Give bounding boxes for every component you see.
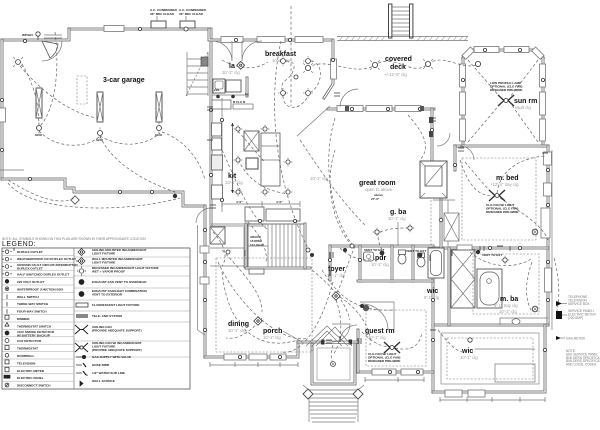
door garage entry leaf [42, 41, 58, 58]
svg-text:+/-12'-0" clg: +/-12'-0" clg [384, 72, 407, 77]
svg-text:wic: wic [461, 348, 473, 355]
svg-text:4'-0": 4'-0" [236, 200, 243, 204]
wire foyer arc [322, 270, 395, 310]
door arc garage-kitchen [196, 208, 211, 223]
porch light [331, 362, 336, 367]
mud room closet [210, 227, 244, 268]
m.ba vanity [500, 318, 548, 325]
wall dining west [204, 206, 207, 357]
mbed ceiling fan [489, 190, 505, 201]
wall deck west [324, 40, 333, 98]
wire ac feed vertical [290, 6, 292, 106]
wire mba arc 2 [527, 262, 532, 312]
wire mbed arc 2 [500, 198, 548, 240]
window wic south 2 [468, 390, 485, 397]
legend box [2, 248, 190, 389]
interior partitions and fixtures [42, 35, 548, 384]
svg-text:S: S [13, 248, 15, 252]
breakfast recessed 2 [303, 56, 313, 66]
wire mbed fan arc [460, 160, 492, 196]
window sunroom east 1 [540, 64, 546, 87]
wall kitchen south [211, 224, 266, 226]
kitchen south counter [245, 207, 264, 221]
door arc m.bed [460, 146, 474, 160]
hall smoke at stairs [310, 253, 314, 257]
svg-text:THREE-WAY SWITCH: THREE-WAY SWITCH [17, 302, 49, 306]
svg-text:W/ BATTERY BACKUP: W/ BATTERY BACKUP [17, 333, 50, 337]
legend right symbols [75, 248, 88, 386]
guest closet [360, 302, 394, 330]
door arc deck [340, 89, 358, 107]
svg-text:5g: 5g [245, 92, 249, 96]
window m.bed east 1 [544, 152, 552, 165]
porch steps [303, 385, 364, 422]
wall m.ba south / wic north [433, 324, 548, 327]
wire garage door arc [8, 180, 75, 201]
svg-text:TELEVISION: TELEVISION [17, 361, 36, 365]
kitchen island with cooktop [244, 131, 280, 186]
svg-text:10'-1" clg: 10'-1" clg [310, 176, 328, 181]
pdr partition west [359, 246, 362, 281]
wall sunroom south / m.bed north [455, 145, 548, 148]
wire foyer arc 2 [282, 282, 333, 352]
wall m.bed south [433, 247, 548, 250]
wall dining south [205, 342, 298, 357]
window sunroom west 1 [460, 64, 466, 87]
wall sunroom top [463, 50, 543, 58]
wall m.bed west [454, 146, 457, 170]
legend left symbol texts [13, 248, 15, 252]
porch post left [303, 389, 313, 399]
svg-text:sun rm: sun rm [514, 98, 537, 105]
window m.ba east [545, 268, 552, 292]
svg-text:LEGEND:: LEGEND: [2, 241, 36, 248]
wire foyer door arc [333, 300, 341, 355]
wire kitchen to stairs [222, 150, 268, 230]
sunroom ceiling fan [498, 95, 514, 106]
wire mba arc [470, 252, 532, 266]
right side service annotations [556, 295, 600, 367]
pdr toilet [398, 250, 406, 264]
breakfast fan light [294, 75, 298, 79]
clg break great room [297, 106, 330, 136]
wire porch arc [331, 345, 333, 364]
garage column 1 [36, 88, 42, 118]
pdr exhaust [364, 248, 384, 255]
window wic south 1 [445, 390, 462, 397]
svg-text:EXHAUST FAN VENT TO OVERHEAD: EXHAUST FAN VENT TO OVERHEAD [92, 280, 147, 284]
svg-text:HALF SWITCHED DUPLEX OUTLET: HALF SWITCHED DUPLEX OUTLET [17, 273, 69, 277]
front door threshold [324, 341, 349, 344]
wall guest west [357, 330, 360, 372]
wall pdr south [358, 280, 433, 283]
bath partition [412, 246, 415, 281]
extra detail marks [0, 66, 559, 343]
svg-text:CO2 DETECTOR: CO2 DETECTOR [17, 339, 42, 343]
laundry washer [213, 79, 225, 93]
wire kitchen chain [238, 131, 265, 162]
wire garage lights chain [39, 131, 100, 145]
wire dining arc [222, 272, 298, 343]
east service dashed [554, 258, 559, 315]
wire garage south sweep [8, 183, 180, 208]
svg-text:1/2" WATER SUB LINE: 1/2" WATER SUB LINE [92, 371, 125, 375]
mbed south ticks [480, 246, 510, 251]
wic dashed [447, 338, 533, 379]
svg-text:13 LIGHT: 13 LIGHT [250, 243, 264, 247]
window breakfast north 2 [257, 37, 285, 43]
wall great room east [431, 109, 434, 163]
guest tray ceiling dashed [366, 310, 426, 366]
svg-text:ELECTRIC METER: ELECTRIC METER [17, 369, 45, 373]
garage column 2 [97, 92, 103, 122]
wall laundry south [212, 94, 247, 96]
kitchen wall appliance 2 [212, 138, 222, 150]
svg-text:27'-0": 27'-0" [371, 197, 380, 201]
hall closet walls [433, 200, 455, 246]
window dining west 1 [200, 246, 209, 253]
wire breakfast loop [282, 61, 294, 93]
la light [237, 61, 245, 69]
deck edge hatched [337, 36, 468, 41]
kitchen south counter 2 [266, 209, 300, 221]
kitchen recessed grid [234, 125, 293, 197]
window guest south 2 [401, 369, 423, 375]
foyer front ticks [326, 340, 332, 343]
ac unit 2 [180, 21, 195, 28]
wall wic west [432, 248, 435, 392]
svg-text:10'-1" clg: 10'-1" clg [460, 355, 478, 360]
wall stair west [245, 224, 248, 268]
wire garage top outlet [40, 32, 57, 126]
garage door opener light 1 [35, 123, 43, 138]
wire foyer cross arc 2 [336, 246, 355, 293]
gba soffit dash [430, 200, 432, 246]
kitchen top counter [212, 100, 231, 109]
covered deck structures [337, 4, 468, 41]
garage keyless light 3 [155, 123, 163, 138]
foyer chandelier [332, 292, 340, 300]
wire dining arc 2 [222, 250, 262, 312]
ac leader lines [157, 16, 186, 21]
window dining south 2 [249, 354, 267, 360]
legend left symbols [3, 250, 12, 387]
wall stair south / foyer north [246, 267, 310, 270]
svg-text:SERVICE BOX: SERVICE BOX [568, 302, 590, 306]
svg-text:g. ba: g. ba [390, 209, 406, 216]
m.ba tray dashed [473, 254, 539, 314]
wire sunroom vault se [511, 104, 538, 142]
window great room north 1 [337, 106, 363, 112]
wall wic south [433, 325, 545, 392]
svg-text:10'-1" clg: 10'-1" clg [222, 70, 240, 75]
wall breakfast north [209, 29, 331, 40]
wall foyer east vertical [304, 224, 307, 268]
svg-text:WP/GFI: WP/GFI [22, 33, 33, 37]
wire dining big sweep [218, 262, 308, 339]
door arc garage entry [42, 41, 62, 61]
svg-text:+12'-4" tray clg: +12'-4" tray clg [490, 182, 519, 187]
legend right labels [92, 248, 159, 383]
svg-text:GDO: GDO [35, 133, 43, 137]
outlets along walls [0, 27, 549, 373]
svg-text:pdr: pdr [375, 255, 387, 262]
m.ba sink [512, 319, 520, 325]
porch inner line [317, 348, 350, 380]
svg-text:36" MIN. CLEAR: 36" MIN. CLEAR [150, 12, 175, 16]
bottom dim lines [210, 365, 545, 400]
kitchen fridge box [212, 185, 223, 199]
bottom dim ticks [210, 362, 545, 402]
svg-text:10'-1" clg: 10'-1" clg [225, 180, 243, 185]
wall left-bay top [2, 29, 69, 40]
deck stairs [389, 4, 413, 38]
fireplace [420, 161, 447, 198]
svg-text:WALL SCONCE: WALL SCONCE [92, 379, 115, 383]
lamp deck 1 [303, 63, 313, 73]
laundry dryer [226, 80, 241, 92]
wic inner walls [441, 333, 539, 384]
great room sconces [429, 117, 434, 123]
svg-text:FLUORESCENT LIGHT FIXTURE: FLUORESCENT LIGHT FIXTURE [92, 303, 139, 307]
window sunroom west 3 [460, 119, 466, 141]
dining tray ceiling dashed [216, 258, 312, 352]
wall sunroom east [542, 58, 545, 146]
wire mbed tray corners [465, 162, 494, 194]
svg-text:10'-1" clg: 10'-1" clg [499, 309, 517, 314]
svg-text:(PROVIDE ADEQUATE SUPPORT): (PROVIDE ADEQUATE SUPPORT) [92, 348, 142, 352]
mud hall arcs [213, 232, 225, 266]
svg-text:b: b [86, 373, 88, 377]
svg-text:(200 AMP): (200 AMP) [568, 316, 583, 320]
wire mbed arc 3 [497, 156, 545, 193]
door arc breakfast right [242, 41, 262, 61]
hall linen closet [444, 213, 459, 241]
svg-text:VENT TO EXT: VENT TO EXT [482, 253, 502, 257]
breakfast recessed 1 [278, 56, 288, 66]
mba exhaust lights [532, 229, 538, 235]
wire guest arc [362, 332, 392, 347]
wall small wic east [448, 248, 451, 325]
mud hall fluorescent [249, 269, 264, 274]
svg-text:TELE- AND SYSTEM: TELE- AND SYSTEM [92, 314, 122, 318]
walls: outer perimeter and interior partitions [2, 29, 548, 392]
wire sunroom vault ne [510, 60, 538, 97]
diamond junction garage [71, 196, 79, 204]
svg-text:THERMOSTAT: THERMOSTAT [17, 347, 38, 351]
wire guest arc 2 [395, 332, 422, 349]
svg-text:10'-1" clg: 10'-1" clg [228, 328, 246, 333]
svg-text:4'-0": 4'-0" [276, 200, 283, 204]
svg-text:B FLU B: B FLU B [233, 100, 246, 104]
svg-text:WATERPROOF JUNCTION BOX: WATERPROOF JUNCTION BOX [17, 287, 64, 291]
kitchen counter edge [221, 98, 223, 212]
wall great room north [328, 108, 434, 111]
svg-text:DESIGNED PRE-WIRE: DESIGNED PRE-WIRE [490, 88, 523, 92]
garage wp outlet [22, 32, 40, 40]
wire great room big arc [275, 41, 308, 248]
lamp deck 4 [475, 61, 480, 66]
door arc front [332, 324, 350, 342]
smoke detector garage [173, 194, 177, 198]
window sunroom corner ne [532, 47, 544, 59]
window breakfast north 1 [221, 37, 243, 43]
window sunroom corner nw [462, 47, 474, 59]
telephone service box symbol [556, 301, 562, 306]
laundry outlet symbols [216, 92, 249, 98]
wire hall arcs [340, 248, 378, 260]
window garage west [0, 108, 6, 122]
svg-text:wic: wic [426, 288, 438, 295]
garage opener dashed [77, 76, 87, 104]
svg-text:GAS SUPPLY WITH VALVE: GAS SUPPLY WITH VALVE [92, 355, 131, 359]
wire dining loop [226, 318, 262, 338]
window sunroom top 1 [474, 47, 499, 53]
svg-text:10'-1" clg: 10'-1" clg [388, 216, 406, 221]
wall foyer west [329, 246, 332, 280]
garage entry stoop [44, 35, 62, 38]
left stoop light [13, 57, 23, 67]
smoke detector foyer [360, 304, 364, 308]
wire great room arc 5 [330, 150, 352, 246]
svg-text:220: 220 [214, 88, 219, 92]
deck posts [345, 106, 349, 111]
svg-text:VENT TO EXTERIOR: VENT TO EXTERIOR [92, 292, 123, 296]
svg-text:10'-1" clg: 10'-1" clg [371, 262, 389, 267]
deck west wall window [331, 59, 337, 79]
legend left labels [17, 250, 78, 388]
wire garage arc top [22, 64, 39, 126]
svg-text:DISCONNECT SWITCH: DISCONNECT SWITCH [17, 384, 51, 388]
smoke detector hall [343, 248, 347, 252]
wall guest south [358, 371, 433, 374]
wire wic arc [438, 330, 462, 352]
gba recessed 1 [373, 228, 382, 237]
gba wall outlet [439, 218, 443, 222]
svg-text:AND LOCAL CODES: AND LOCAL CODES [566, 363, 596, 367]
svg-text:porch: porch [263, 328, 282, 335]
wire sunroom vault sw [468, 104, 500, 142]
svg-text:LIGHT FIXTURE: LIGHT FIXTURE [92, 251, 115, 255]
window great room north 3 [395, 106, 421, 112]
svg-text:covered: covered [385, 56, 412, 63]
electric meter symbol [556, 311, 562, 319]
wire garage to switch [162, 132, 205, 180]
svg-text:LIGHT FIXTURE: LIGHT FIXTURE [92, 260, 115, 264]
window m.bed east 2 bay [544, 183, 552, 196]
door arc breakfast left [212, 41, 232, 61]
wire garage lights chain 2 [100, 133, 160, 144]
ac unit 1 [151, 21, 166, 28]
svg-text:10'-1" clg: 10'-1" clg [263, 335, 281, 340]
svg-text:m. bed: m. bed [496, 175, 519, 182]
room labels [103, 51, 537, 360]
svg-text:ELECTRIC PANEL: ELECTRIC PANEL [17, 376, 44, 380]
gba dash [378, 234, 382, 250]
svg-text:breakfast: breakfast [265, 51, 297, 58]
kitchen wall appliance 1 [212, 123, 222, 136]
svg-text:DESIGNED PRE-WIRE: DESIGNED PRE-WIRE [368, 359, 401, 363]
lamp deck 2 [370, 60, 380, 70]
mba recessed [501, 256, 510, 265]
svg-text:VENT TO EXT: VENT TO EXT [406, 249, 426, 253]
window breakfast north 3 [295, 37, 323, 43]
window sunroom west 2 [460, 92, 466, 115]
svg-text:220 VOLT OUTLET: 220 VOLT OUTLET [17, 280, 44, 284]
mud room dumbwaiter [210, 227, 225, 244]
wic light [468, 338, 472, 342]
wall garage-kitchen [210, 29, 213, 226]
svg-text:WET + VAPOR PROOF: WET + VAPOR PROOF [92, 269, 125, 273]
entry porch [303, 326, 364, 422]
svg-text:DESIGNED PRE-WIRE: DESIGNED PRE-WIRE [486, 210, 519, 214]
svg-text:WEATHERPROOF GFI DUPLEX OUTLET: WEATHERPROOF GFI DUPLEX OUTLET [17, 257, 76, 261]
svg-text:THERMOSTAT SWITCH: THERMOSTAT SWITCH [17, 324, 52, 328]
wall hall south / pdr north [330, 245, 433, 248]
back stair garage [186, 52, 208, 96]
wire breakfast down [283, 96, 308, 107]
m.ba shower lattice [451, 250, 475, 308]
hall door arc [437, 133, 450, 146]
window sunroom east 3 [540, 119, 546, 141]
svg-text:open to above: open to above [365, 187, 393, 192]
m.ba tub [477, 269, 502, 308]
legend [2, 237, 190, 389]
breakfast recessed 4 [303, 88, 313, 98]
wic rod [475, 348, 535, 350]
svg-text:(PROVIDE ADEQUATE SUPPORT): (PROVIDE ADEQUATE SUPPORT) [92, 328, 142, 332]
m.bed tray ceiling dashed [462, 158, 536, 240]
svg-text:vault clg: vault clg [515, 105, 531, 110]
guest ceiling fan [384, 342, 400, 353]
window sunroom top 2 [504, 47, 529, 53]
wall laundry east [246, 78, 249, 96]
window great room north 2 [366, 106, 392, 112]
svg-text:DUPLEX OUTLET: DUPLEX OUTLET [17, 266, 43, 270]
window sunroom east 2 [540, 92, 546, 115]
wall garage south [2, 179, 205, 206]
pdr partition east [391, 246, 394, 281]
g.ba tub [428, 248, 444, 278]
svg-text:3-car garage: 3-car garage [103, 77, 145, 84]
svg-text:great room: great room [359, 180, 396, 187]
svg-text:FOUR-WAY SWITCH: FOUR-WAY SWITCH [17, 310, 47, 314]
kitchen oven [212, 155, 223, 170]
window dining west 2 [200, 277, 209, 284]
west side porch strip [198, 225, 206, 335]
window garage top [104, 26, 124, 32]
svg-text:DIMMER: DIMMER [17, 317, 30, 321]
garage extra dashes [20, 66, 96, 118]
legend right rows separators [74, 257, 190, 357]
svg-text:foyer: foyer [328, 266, 345, 273]
great room lights [350, 244, 354, 248]
door arc wic [340, 325, 357, 342]
lamp deck 3 [423, 59, 433, 69]
gas meter symbol [556, 336, 561, 340]
wire laundry loop [222, 60, 268, 68]
gas line stub [0, 169, 24, 171]
garage south outlets [28, 177, 153, 193]
wall garage top [69, 28, 209, 31]
wire kitchen chain 2 [238, 160, 288, 194]
legend left rows separators [2, 255, 74, 381]
mbed vent [476, 250, 480, 254]
wic shelf [495, 364, 535, 382]
windows on walls [0, 26, 552, 398]
porch gable [306, 326, 352, 346]
window dining south 3 [270, 354, 286, 360]
